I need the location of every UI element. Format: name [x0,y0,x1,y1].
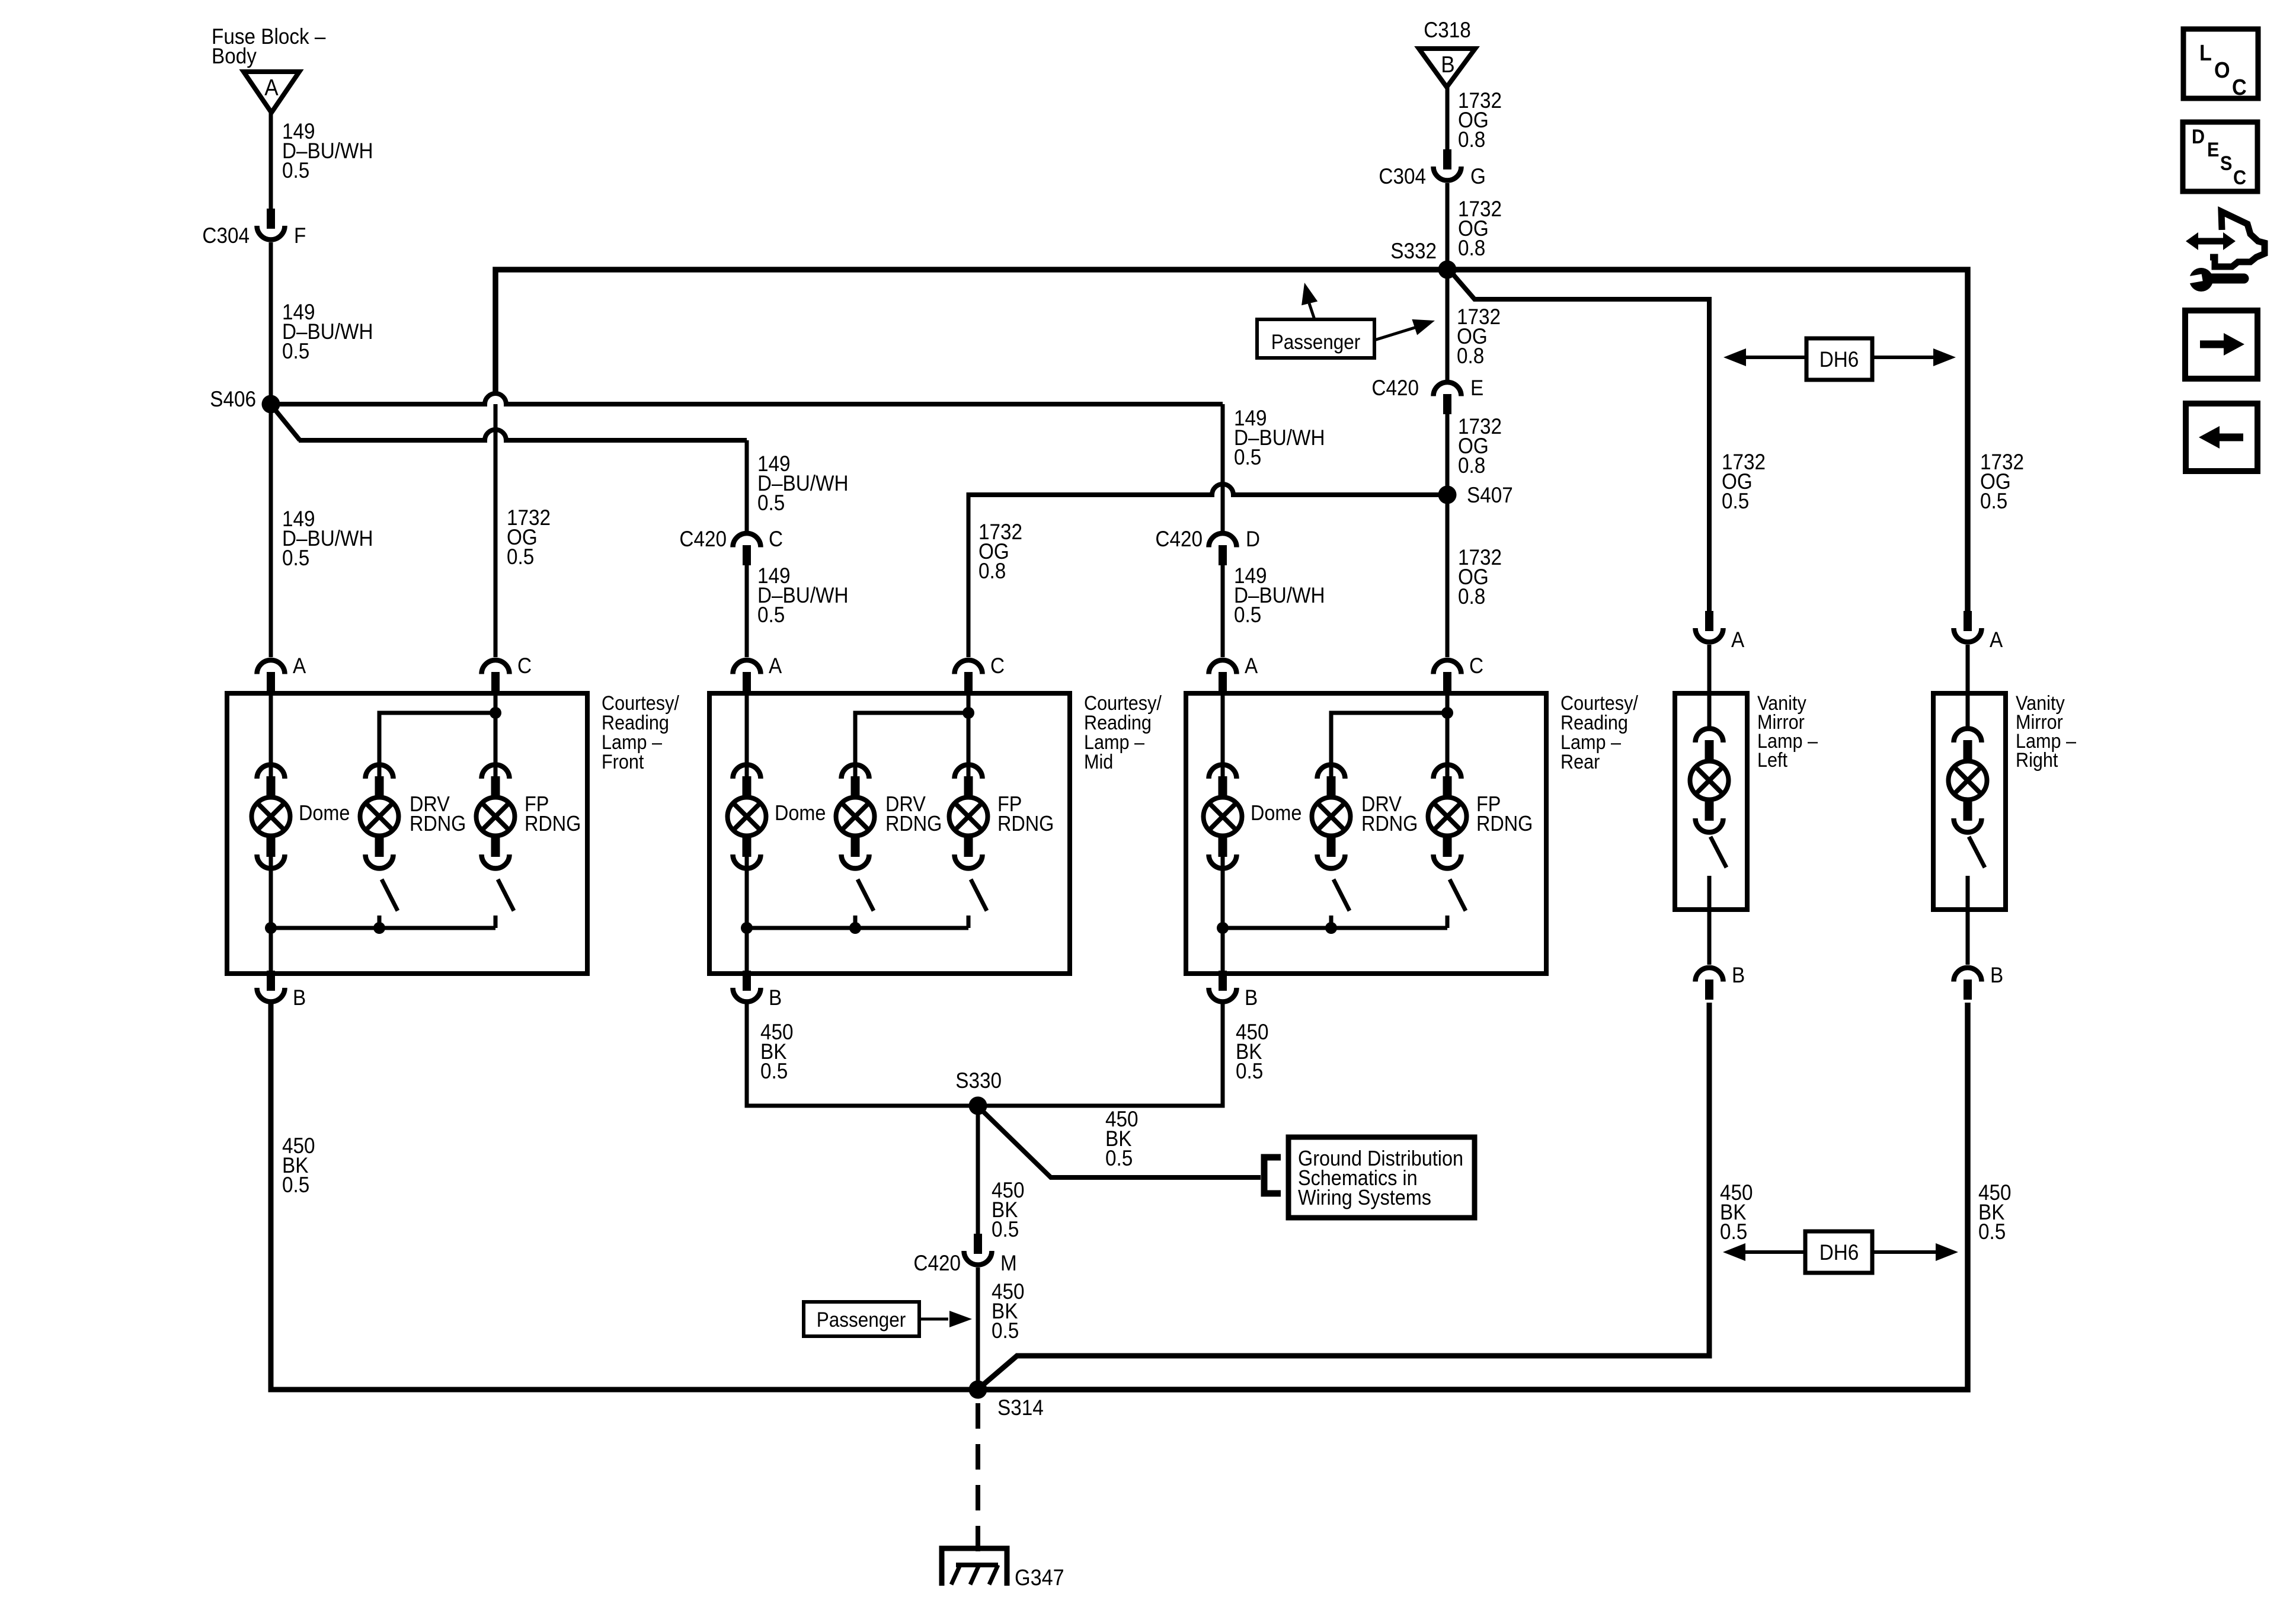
svg-text:C304: C304 [1379,164,1426,188]
svg-text:RDNG: RDNG [885,812,942,836]
wire 450 S330 to C420 M [976,1106,980,1234]
wire label 1732 OG 0.8 (above S407) [1458,414,1502,478]
svg-text:D: D [2192,126,2205,148]
wire label 1732 OG 0.8 (mid pin C) [978,520,1022,583]
wire left vanity B to S314 [980,1003,1709,1387]
courtesy/reading lamp front pin C connector [482,654,532,692]
courtesy/reading lamp front pin C inner wire [494,693,498,779]
courtesy/reading lamp front pin A connector [257,654,306,692]
svg-text:A: A [1990,628,2003,652]
svg-text:Rear: Rear [1560,751,1600,773]
svg-text:Wiring Systems: Wiring Systems [1298,1186,1431,1209]
label box Passenger (top) [1257,319,1374,358]
courtesy/reading lamp mid pin A inner wire [745,693,749,779]
svg-text:C420: C420 [1155,527,1203,551]
svg-text:C: C [2233,167,2246,189]
wire label 149 D-BU/WH 0.5 (above C420 C) [757,452,849,515]
svg-text:0.8: 0.8 [978,559,1006,583]
courtesy/reading lamp rear label [1560,692,1638,773]
courtesy/reading lamp mid pin C inner wire [967,693,971,779]
svg-text:D: D [1246,527,1260,551]
courtesy/reading lamp front inner ground bus [265,922,495,934]
icon box DESC [2183,122,2257,191]
svg-text:A: A [1245,654,1258,678]
wire label 450 BK 0.5 (below C420 M) [992,1279,1025,1343]
courtesy/reading lamp front box outline [227,693,587,974]
wire 450 rear pin B to S330 [978,1004,1223,1106]
courtesy/reading lamp front dome lamp [252,764,350,868]
svg-text:S314: S314 [997,1395,1044,1420]
leader arrow passenger bottom [919,1311,972,1327]
wire S407 to rear lamp pin C [1446,495,1450,657]
splice S314 [969,1381,1044,1420]
svg-text:0.5: 0.5 [1105,1146,1133,1170]
svg-text:0.5: 0.5 [757,491,785,515]
label G347 [1015,1564,1064,1590]
courtesy/reading lamp rear box outline [1186,693,1546,974]
svg-text:0.8: 0.8 [1458,127,1485,152]
splice S406 [210,387,280,413]
courtesy/reading lamp front dome lamp wire to bus [269,852,273,928]
svg-text:A: A [293,654,306,678]
icon wrench [2177,268,2244,292]
svg-text:0.5: 0.5 [1236,1059,1263,1083]
svg-text:0.5: 0.5 [992,1217,1019,1241]
svg-text:B: B [1441,51,1454,77]
svg-text:S407: S407 [1467,483,1513,507]
wire 1732 C304 G to S332 [1446,183,1450,270]
svg-text:DH6: DH6 [1819,1240,1859,1265]
svg-text:E: E [2207,139,2219,161]
svg-text:C: C [2232,74,2247,100]
svg-text:Front: Front [602,751,644,773]
wire label 1732 OG 0.8 (rear pin C) [1458,545,1502,609]
courtesy/reading lamp mid box outline [709,693,1070,974]
svg-text:Mid: Mid [1084,751,1113,773]
wire S407 to mid lamp pin C [968,484,1447,657]
svg-text:C420: C420 [1371,376,1419,400]
svg-text:0.5: 0.5 [282,1173,309,1197]
wire label 450 BK 0.5 (mid B) [760,1020,794,1083]
wire right vanity B to bottom line [978,1003,1968,1390]
vanity mirror lamp right wire label 1732 OG 0.5 [1980,450,2024,513]
courtesy/reading lamp front DRV reading lamp [360,764,466,868]
wire label 1732 OG 0.8 (above C304 G) [1458,88,1502,152]
connector C318 triangle B [1419,49,1475,87]
courtesy/reading lamp mid pin B connector [733,971,782,1010]
svg-text:C: C [769,527,783,551]
svg-text:Left: Left [1757,749,1787,772]
splice S330 [955,1068,1002,1115]
wire label 149 D-BU/WH 0.5 (below C304 F) [282,300,373,363]
vanity mirror lamp left pin B connector [1696,963,1745,1000]
courtesy/reading lamp rear dome lamp wire to bus [1221,852,1225,928]
svg-text:B: B [1990,963,2003,987]
connector C420 pin E [1371,376,1483,414]
svg-text:C: C [1469,654,1483,678]
svg-text:0.5: 0.5 [507,545,534,569]
svg-text:F: F [294,223,306,248]
svg-text:C420: C420 [913,1251,961,1275]
vanity mirror lamp left label [1757,692,1818,772]
vanity mirror lamp right wire label 450 BK 0.5 [1978,1180,2012,1244]
ground distribution bracket [1264,1157,1281,1193]
svg-text:S406: S406 [210,387,256,411]
svg-text:B: B [293,985,306,1010]
wire label 149 D-BU/WH 0.5 (front pin A) [282,507,373,570]
vanity mirror lamp right pin A connector [1954,611,2003,652]
vanity mirror lamp right pin B connector [1954,963,2004,1000]
svg-text:RDNG: RDNG [1476,812,1533,836]
wire label 1732 OG 0.8 (below C304 G) [1458,197,1502,260]
fuse block source triangle A [244,72,299,113]
svg-text:0.5: 0.5 [1720,1219,1747,1244]
svg-text:Passenger: Passenger [1271,331,1361,354]
wire label 450 BK 0.5 (to ground distribution) [1105,1107,1139,1170]
courtesy/reading lamp front inner branch to DRV lamp [379,707,501,779]
svg-text:G347: G347 [1015,1564,1064,1590]
wire C420 D to rear pin A [1221,552,1225,657]
courtesy/reading lamp mid DRV switch [855,879,874,928]
svg-text:0.5: 0.5 [1722,489,1749,513]
svg-text:C318: C318 [1424,18,1471,42]
svg-text:C: C [990,654,1005,678]
svg-text:DH6: DH6 [1819,347,1859,372]
courtesy/reading lamp rear inner branch to DRV lamp [1331,707,1453,779]
svg-text:A: A [264,74,279,100]
vanity mirror lamp left pin A connector [1696,611,1745,652]
label box Passenger (bottom) [804,1302,919,1336]
vanity mirror lamp right box outline [1933,693,2006,910]
vanity mirror lamp left wire pin A to box [1707,645,1712,730]
svg-text:A: A [1731,628,1745,652]
connector C420 pin M [913,1234,1016,1275]
wire label 1732 OG 0.8 (above C420 E) [1457,305,1501,368]
courtesy/reading lamp rear FP switch [1447,879,1466,928]
svg-text:C420: C420 [679,527,727,551]
vanity mirror lamp right label [2016,692,2076,772]
svg-text:C304: C304 [202,223,250,248]
courtesy/reading lamp mid pin A to pin B inner wire [745,928,749,972]
courtesy/reading lamp rear pin A to pin B inner wire [1221,928,1225,972]
courtesy/reading lamp rear pin C inner wire [1446,693,1450,779]
icon vehicle head double arrow [2186,212,2265,267]
harness reference DH6 (bottom) [1723,1231,1958,1273]
wire 1732 C318 to C304 G [1446,86,1450,150]
wire 1732 main orange line (front C to right vanity) [495,270,1968,612]
courtesy/reading lamp mid pin C connector [955,654,1005,692]
courtesy/reading lamp front pin B connector [257,971,306,1010]
icon box arrow right [2185,311,2257,379]
svg-text:0.8: 0.8 [1458,236,1485,260]
courtesy/reading lamp front DRV switch [379,879,398,928]
wire S406 to C420 C (branch) [274,408,747,440]
icon box LOC [2183,29,2258,100]
harness reference DH6 (top) [1723,338,1956,380]
svg-text:C: C [517,654,532,678]
dashed wire S314 to G347 [976,1403,980,1564]
wire C420 D riser to corner [1221,404,1225,533]
wire 1732 C420 E to S407 [1446,401,1450,495]
wire 149 fuse block to C304 F [269,110,273,209]
svg-text:Passenger: Passenger [817,1309,906,1332]
connector C420 pin C [679,527,783,565]
svg-text:0.8: 0.8 [1457,344,1484,368]
splice S332 [1390,239,1456,279]
wire S406 to C420 D (branch) [271,393,1223,404]
courtesy/reading lamp rear dome lamp [1204,764,1302,868]
wire S332 to left vanity mirror lamp [1452,273,1709,612]
svg-text:E: E [1470,376,1483,400]
leader arrow passenger right [1374,319,1435,340]
ground G347 symbol [942,1548,1007,1586]
svg-text:0.5: 0.5 [1234,603,1261,627]
wire label 149 D-BU/WH 0.5 (above C304 F) [282,119,373,183]
leader arrow passenger up [1302,283,1318,319]
connector C304 pin F [202,209,306,248]
wire 450 C420 M to S314 [976,1267,980,1390]
svg-text:0.5: 0.5 [282,339,309,363]
svg-text:G: G [1470,164,1486,188]
courtesy/reading lamp rear DRV switch [1331,879,1350,928]
svg-text:L: L [2199,40,2212,65]
courtesy/reading lamp front FP switch [495,879,514,928]
svg-text:S330: S330 [955,1068,1002,1093]
courtesy/reading lamp mid FP reading lamp [949,764,1054,868]
wire label 149 D-BU/WH 0.5 (below C420 D) [1234,564,1325,627]
svg-text:Dome: Dome [775,801,826,825]
wire 450 front pin B to bottom line [271,1004,978,1390]
svg-text:O: O [2214,57,2230,82]
wire front pin C riser [494,404,498,657]
wire 149 C304 F to S406 [269,242,273,404]
wire 1732 S332 to C420 E [1446,270,1450,382]
courtesy/reading lamp rear pin A connector [1209,654,1258,692]
svg-text:0.5: 0.5 [1980,489,2007,513]
vanity mirror lamp right switch [1968,837,1985,965]
vanity mirror lamp left wire label 450 BK 0.5 [1720,1180,1753,1244]
vanity mirror lamp left switch [1709,837,1726,965]
wire label 450 BK 0.5 (front B) [282,1134,315,1197]
wire label 149 D-BU/WH 0.5 (below C420 C) [757,564,849,627]
splice S407 [1438,483,1513,507]
wire label 450 BK 0.5 (above C420 M) [992,1178,1025,1241]
label C318 [1424,18,1471,42]
wire C420 C to mid pin A [745,552,749,657]
wire label 149 D-BU/WH 0.5 (above C420 D) [1234,406,1325,469]
courtesy/reading lamp rear FP reading lamp [1428,764,1533,868]
courtesy/reading lamp mid DRV reading lamp [836,764,942,868]
svg-text:B: B [1732,963,1745,987]
courtesy/reading lamp front label [602,692,679,773]
wire label 450 BK 0.5 (rear B) [1236,1020,1269,1083]
svg-text:0.5: 0.5 [282,546,309,570]
wire S406 to front lamp pin A [269,404,273,657]
svg-text:0.8: 0.8 [1458,584,1485,609]
svg-text:B: B [769,985,782,1010]
wire C420 C riser to corner [745,440,749,533]
svg-text:S: S [2220,152,2232,175]
wire label 1732 OG 0.5 (front pin C) [507,505,551,569]
vanity mirror lamp left wire label 1732 OG 0.5 [1722,450,1766,513]
svg-text:Dome: Dome [299,801,350,825]
svg-text:Body: Body [212,44,257,68]
svg-text:M: M [1000,1251,1017,1275]
svg-text:Right: Right [2016,749,2058,772]
svg-text:S332: S332 [1390,239,1437,263]
svg-text:0.5: 0.5 [1234,445,1261,469]
svg-text:RDNG: RDNG [410,812,466,836]
courtesy/reading lamp rear pin A inner wire [1221,693,1225,779]
courtesy/reading lamp mid dome lamp [728,764,826,868]
svg-text:RDNG: RDNG [997,812,1054,836]
wire S330 to ground distribution [981,1110,1261,1177]
courtesy/reading lamp rear DRV reading lamp [1312,764,1418,868]
svg-text:0.5: 0.5 [992,1318,1019,1343]
svg-text:0.5: 0.5 [1978,1219,2006,1244]
courtesy/reading lamp front pin A to pin B inner wire [269,928,273,972]
svg-text:0.8: 0.8 [1458,453,1485,478]
svg-text:RDNG: RDNG [525,812,581,836]
vanity mirror lamp left box outline [1675,693,1747,910]
vanity mirror lamp right wire pin A to box [1966,645,1970,730]
courtesy/reading lamp front FP reading lamp [477,764,581,868]
courtesy/reading lamp front pin A inner wire [269,693,273,779]
courtesy/reading lamp mid pin A connector [733,654,782,692]
courtesy/reading lamp mid dome lamp wire to bus [745,852,749,928]
label Fuse Block - Body [212,24,326,68]
courtesy/reading lamp mid FP switch [968,879,987,928]
courtesy/reading lamp mid inner ground bus [741,922,968,934]
connector C304 pin G [1379,149,1485,188]
courtesy/reading lamp mid inner branch to DRV lamp [855,707,974,779]
svg-text:Dome: Dome [1251,801,1302,825]
wire 450 mid pin B to S330 [747,1004,978,1106]
label box Ground Distribution Schematics in Wiring Systems [1288,1137,1475,1218]
svg-text:A: A [769,654,782,678]
courtesy/reading lamp rear pin C connector [1434,654,1484,692]
vanity mirror lamp right lamp [1949,729,1987,833]
svg-text:RDNG: RDNG [1361,812,1418,836]
courtesy/reading lamp mid label [1084,692,1162,773]
svg-text:B: B [1245,985,1258,1010]
courtesy/reading lamp rear pin B connector [1209,971,1258,1010]
vanity mirror lamp left lamp [1690,729,1729,833]
svg-text:0.5: 0.5 [760,1059,788,1083]
icon box arrow left [2186,404,2257,471]
svg-text:0.5: 0.5 [282,158,309,183]
connector C420 pin D [1155,527,1260,565]
svg-text:0.5: 0.5 [757,603,785,627]
courtesy/reading lamp rear inner ground bus [1217,922,1447,934]
